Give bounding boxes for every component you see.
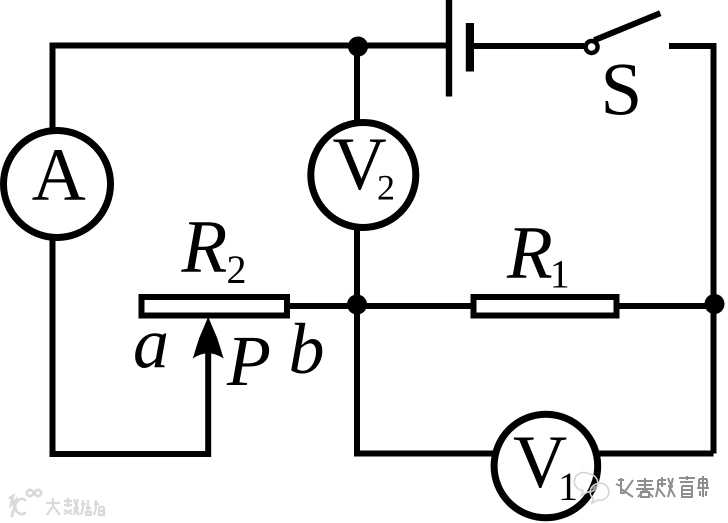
node junction b [347, 295, 367, 315]
svg-text:b: b [289, 309, 325, 389]
wire top junction down to V2 top [354, 46, 360, 121]
wire ammeter bottom loop to slider stem [53, 240, 209, 454]
voltmeter V1 circle [494, 414, 598, 518]
voltmeter V2 circle [311, 123, 416, 228]
wire top-left: ammeter top up and right to battery [53, 46, 450, 129]
wire battery to switch [474, 43, 584, 49]
svg-text:2: 2 [227, 247, 247, 292]
battery short plate [466, 23, 474, 72]
watermark bottom-right text 长春教育帮 (vector strokes) [616, 476, 709, 497]
switch pivot circle [586, 41, 598, 53]
svg-text:A: A [32, 134, 86, 217]
battery long plate [446, 0, 452, 97]
wire R1 right to right edge [618, 303, 714, 309]
svg-text:S: S [601, 48, 643, 131]
svg-text:R: R [506, 212, 553, 295]
svg-text:a: a [133, 303, 169, 383]
wire switch to top-right corner, right side down [669, 46, 714, 454]
svg-text:1: 1 [550, 252, 570, 297]
watermark bottom-right icon dot [592, 486, 597, 491]
watermark bottom-left text 大数跨境 (vector strokes) [46, 498, 104, 515]
watermark bottom-right icon (bubbles) [574, 473, 609, 503]
node top junction [348, 37, 368, 57]
resistor R1 body [474, 297, 617, 316]
rheostat R2 body [142, 297, 288, 316]
wire R2 right to R1 left [288, 303, 472, 309]
wire V1 right side to right edge [597, 451, 714, 457]
watermark bottom-left logo 1C°° [10, 490, 41, 516]
node right junction [705, 294, 725, 314]
svg-text:P: P [226, 321, 271, 401]
slider arrowhead P [193, 317, 224, 359]
wire V2 bottom to junction b and bottom wire to V1 [357, 229, 495, 454]
switch lever [594, 13, 660, 40]
svg-text:2: 2 [377, 167, 395, 207]
svg-text:R: R [181, 206, 228, 289]
ammeter A circle [4, 131, 111, 238]
